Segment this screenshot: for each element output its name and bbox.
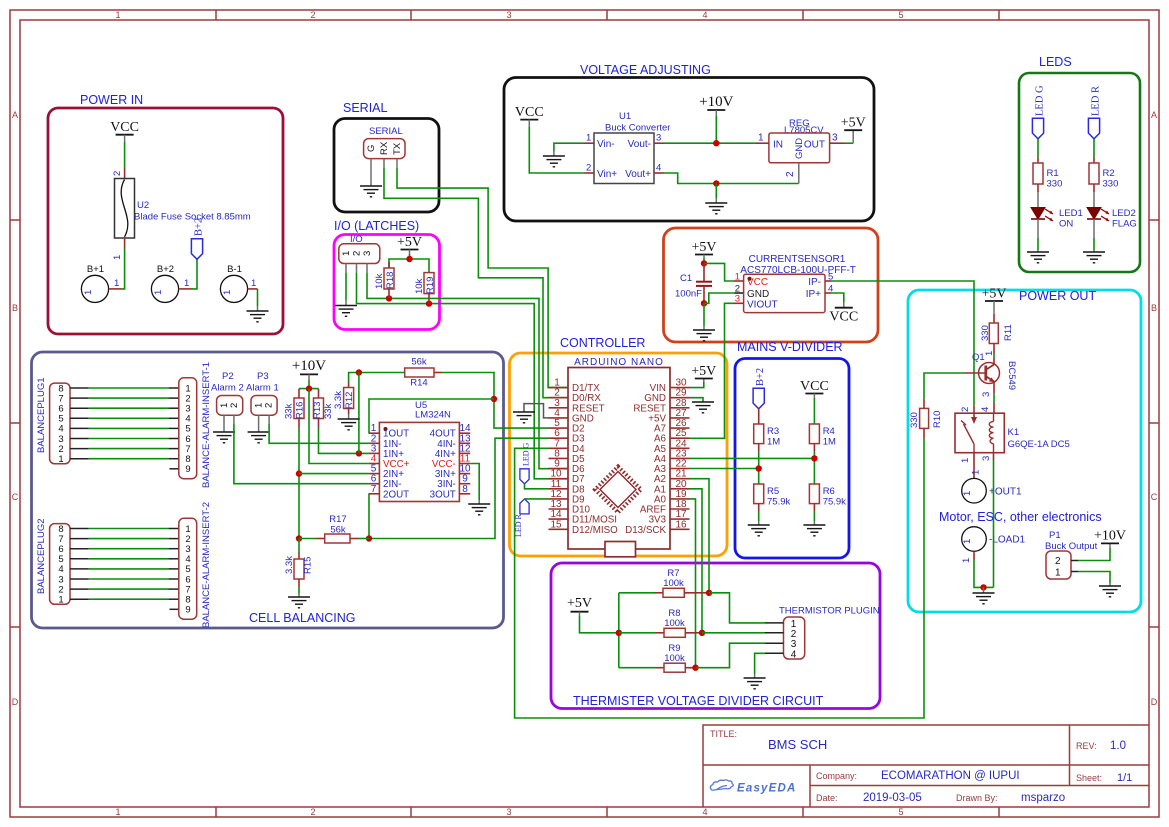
svg-text:OUT: OUT <box>804 140 825 151</box>
svg-text:1: 1 <box>58 595 63 606</box>
ground (power out) <box>973 587 995 603</box>
svg-text:VCC: VCC <box>110 120 139 135</box>
wire A0 to R9 node <box>690 499 696 668</box>
wire Q1 emitter to relay pin4 <box>980 382 994 414</box>
junction C1 bottom <box>701 300 707 306</box>
svg-text:Q1: Q1 <box>972 352 985 363</box>
svg-text:2: 2 <box>785 171 796 177</box>
power flag +10V (cell balancing) <box>292 358 326 389</box>
svg-text:SERIAL: SERIAL <box>343 101 388 115</box>
svg-text:GND: GND <box>794 138 805 159</box>
wires plug1 to insert1 <box>89 388 169 459</box>
wire R12/R14 node down to 1IN+ row <box>358 373 360 454</box>
svg-text:2: 2 <box>264 403 275 408</box>
power flag +5V (I/O) <box>397 235 422 254</box>
svg-text:Drawn By:: Drawn By: <box>956 793 998 803</box>
svg-text:15: 15 <box>550 519 562 530</box>
connector I/O <box>339 234 380 273</box>
resistor R12 3.3k <box>333 382 355 414</box>
THERMISTER box <box>551 563 880 709</box>
svg-text:Alarm 1: Alarm 1 <box>246 383 279 394</box>
connector B+2 <box>151 264 191 303</box>
svg-text:+5V: +5V <box>691 364 716 379</box>
svg-text:FLAG: FLAG <box>1112 219 1137 230</box>
svg-text:56k: 56k <box>411 357 427 368</box>
wire U5 VCC- to ground <box>470 464 479 501</box>
wire +5V to resistor rail <box>580 593 623 668</box>
svg-text:1: 1 <box>114 278 119 289</box>
ground (current sensor) <box>693 326 715 341</box>
svg-text:R15: R15 <box>303 557 314 574</box>
wire LOAD1 to gnd node <box>974 560 994 587</box>
svg-text:330: 330 <box>909 412 920 428</box>
svg-text:3: 3 <box>735 294 740 305</box>
svg-text:ARDUINO NANO: ARDUINO NANO <box>574 357 664 368</box>
svg-text:330: 330 <box>1103 179 1119 190</box>
connector P3 Alarm 1 <box>246 371 279 424</box>
svg-text:16: 16 <box>675 519 687 530</box>
SERIAL box <box>334 101 439 212</box>
svg-text:1: 1 <box>112 255 123 260</box>
svg-text:B: B <box>1151 303 1157 313</box>
svg-text:1M: 1M <box>823 437 836 448</box>
wire VCC to R4 <box>813 398 815 424</box>
junction R9 right <box>692 665 698 671</box>
ground (divider right) <box>803 525 825 536</box>
svg-text:LM324N: LM324N <box>415 410 451 421</box>
svg-text:75.9k: 75.9k <box>823 497 846 508</box>
junction gnd rail <box>713 180 719 186</box>
svg-text:msparzo: msparzo <box>1021 792 1065 804</box>
ground (led2) <box>1083 252 1105 263</box>
svg-text:B+1: B+1 <box>87 264 104 275</box>
LED2 <box>1087 192 1137 230</box>
svg-text:-LOAD1: -LOAD1 <box>989 535 1026 546</box>
wire base from R10 <box>924 373 965 399</box>
svg-text:VCC: VCC <box>800 379 829 394</box>
svg-text:ON: ON <box>1059 219 1073 230</box>
wire P2 pin1 to ground <box>223 424 225 432</box>
resistor R1 330 <box>1033 157 1062 192</box>
svg-text:1: 1 <box>735 272 740 283</box>
svg-text:1: 1 <box>251 278 256 289</box>
I/O (LATCHES) box <box>334 219 440 330</box>
IC ARDUINO NANO <box>549 357 690 557</box>
ground (U5) <box>468 500 490 515</box>
connector P1 Buck Output <box>1045 530 1098 579</box>
wire R6 to ground <box>813 511 815 525</box>
svg-text:1: 1 <box>960 458 971 463</box>
MAINS V-DIVIDER box <box>735 340 849 558</box>
svg-text:POWER IN: POWER IN <box>80 93 143 107</box>
svg-text:ECOMARATHON @ IUPUI: ECOMARATHON @ IUPUI <box>881 770 1020 782</box>
wire Vout- to REG IN <box>664 140 755 146</box>
svg-text:BMS SCH: BMS SCH <box>768 737 827 752</box>
svg-text:R19: R19 <box>425 277 436 294</box>
svg-text:D13/SCK: D13/SCK <box>625 525 666 536</box>
power flag VCC (power in) <box>110 120 139 142</box>
resistor R11 330 <box>980 314 1014 354</box>
wire sensor IP+ to VCC flag <box>831 293 844 302</box>
wire VCC to Vin+ <box>529 127 584 173</box>
svg-text:B+2: B+2 <box>194 218 205 236</box>
svg-text:100k: 100k <box>664 618 685 629</box>
svg-text:POWER OUT: POWER OUT <box>1019 289 1096 303</box>
svg-text:P1: P1 <box>1049 530 1061 541</box>
resistor R9 100k <box>619 643 696 672</box>
wire 1OUT elbow to rail <box>369 399 494 433</box>
wire P1 pin1 to ground <box>1078 572 1110 584</box>
wire A1 to R8 node <box>690 489 703 633</box>
wire P2 pin2 to U5 2IN- <box>234 424 369 484</box>
VOLTAGE ADJUSTING box <box>504 63 874 221</box>
wire I/O pin2 to R19 node to D7 <box>357 273 569 479</box>
ground (thermistor) <box>744 674 766 689</box>
svg-text:CURRENTSENSOR1: CURRENTSENSOR1 <box>749 254 846 265</box>
svg-text:BALANCE-ALARM-INSERT-2: BALANCE-ALARM-INSERT-2 <box>201 502 212 628</box>
resistor R15 3.3k <box>284 539 314 588</box>
svg-text:CELL BALANCING: CELL BALANCING <box>249 611 356 625</box>
svg-text:2: 2 <box>352 251 363 256</box>
resistor R17 56k <box>299 514 369 543</box>
svg-text:7: 7 <box>371 484 377 495</box>
wire gnd trace to pin4 GND <box>524 404 549 418</box>
junction R7 right <box>706 590 712 596</box>
net flag B+2 (divider) <box>753 368 766 409</box>
label U2 Blade Fuse Socket 8.85mm <box>134 200 251 223</box>
svg-text:1: 1 <box>222 290 233 295</box>
wire R17 node to D3 <box>366 438 549 542</box>
svg-text:VCC: VCC <box>515 105 544 120</box>
wire sensor IP- to relay pin2 <box>831 281 974 405</box>
svg-text:VCC: VCC <box>747 277 768 288</box>
wire sensor GND pin2 to C1 node <box>704 293 744 303</box>
svg-text:VCC: VCC <box>829 310 858 325</box>
power flag +10V (power out) <box>1094 529 1126 549</box>
power flag VCC (divider) <box>800 379 829 398</box>
svg-text:K1: K1 <box>1008 427 1020 438</box>
net flag LED R (leds box) <box>1088 86 1101 139</box>
IC CURRENTSENSOR1 ACS770LCB-100U-PFF-T <box>734 254 856 313</box>
svg-text:G6QE-1A DC5: G6QE-1A DC5 <box>1008 439 1070 450</box>
svg-text:D12/MISO: D12/MISO <box>572 525 618 536</box>
power flag +5V (controller VIN) <box>690 364 717 388</box>
svg-text:1: 1 <box>83 290 94 295</box>
svg-text:3: 3 <box>832 133 838 144</box>
resistor R16 33k <box>284 389 306 429</box>
net flag LED G (leds box) <box>1032 85 1045 139</box>
svg-text:330: 330 <box>980 325 991 341</box>
svg-text:R14: R14 <box>410 378 427 389</box>
ground (I/O) <box>335 300 357 316</box>
wire R7 node to plugin pin1 <box>709 593 765 623</box>
wire Vout+ to gnd rail <box>664 173 799 184</box>
svg-text:LED G: LED G <box>1035 85 1046 116</box>
svg-text:RX: RX <box>379 141 390 155</box>
svg-text:R10: R10 <box>932 411 943 428</box>
svg-text:VCC-: VCC- <box>432 459 456 470</box>
svg-text:A: A <box>1151 110 1157 120</box>
svg-text:330: 330 <box>1047 179 1063 190</box>
ground (R15) <box>288 587 310 608</box>
svg-text:Vout+: Vout+ <box>625 169 651 180</box>
svg-text:3OUT: 3OUT <box>430 489 456 500</box>
svg-text:R16: R16 <box>295 402 306 419</box>
capacitor C1 100nF <box>675 263 712 303</box>
relay pin1 to +OUT1 <box>960 453 982 479</box>
svg-text:I/O (LATCHES): I/O (LATCHES) <box>334 219 419 233</box>
svg-text:Vin+: Vin+ <box>597 169 617 180</box>
svg-text:1: 1 <box>115 10 120 20</box>
svg-text:C: C <box>12 492 19 502</box>
wire R11 to Q1 collector <box>993 354 995 365</box>
wire D4 to relay base resistor R10 <box>515 439 924 718</box>
svg-text:+5V: +5V <box>397 235 422 250</box>
svg-text:R4: R4 <box>823 426 835 437</box>
junction gnd node <box>980 584 986 590</box>
svg-text:A: A <box>12 110 18 120</box>
svg-text:EasyEDA: EasyEDA <box>737 783 797 795</box>
wire A2 to R7 node <box>690 479 710 593</box>
svg-text:2: 2 <box>310 10 315 20</box>
svg-text:33k: 33k <box>284 403 295 419</box>
fuse U2 pin 1 <box>112 238 125 260</box>
svg-text:1: 1 <box>758 133 764 144</box>
resistor R3 1M <box>754 409 781 452</box>
wire LED1 to ground <box>1037 219 1039 252</box>
svg-text:5: 5 <box>898 10 903 20</box>
resistor R18 10k <box>374 262 396 298</box>
transistor Q1 BC549 <box>965 351 1018 397</box>
resistor R5 75.9k <box>754 484 791 511</box>
wire LED G flag to D8 <box>525 484 549 489</box>
wire R8 node to plugin pin2 <box>702 632 765 634</box>
svg-text:LED1: LED1 <box>1059 208 1083 219</box>
resistor R13 33k <box>312 389 334 429</box>
wire plugin pin4 to ground <box>755 653 765 674</box>
wire R12 bottom to ground <box>348 414 350 419</box>
svg-text:3.3k: 3.3k <box>284 556 295 574</box>
power flag VCC (voltage adjusting) <box>515 105 544 127</box>
svg-text:75.9k: 75.9k <box>767 497 790 508</box>
svg-text:Vin-: Vin- <box>597 139 615 150</box>
svg-text:+5V: +5V <box>567 596 592 611</box>
LED1 <box>1031 192 1083 230</box>
svg-text:1: 1 <box>115 807 120 817</box>
resistor R4 1M <box>809 424 836 452</box>
svg-text:D: D <box>1151 697 1158 707</box>
connector THERMISTOR PLUGIN <box>765 606 880 661</box>
resistor R14 56k <box>405 357 442 389</box>
svg-text:2: 2 <box>112 171 123 176</box>
svg-text:10k: 10k <box>374 273 385 289</box>
ground (divider left) <box>748 525 770 536</box>
net flag LED G (controller) <box>520 442 531 483</box>
resistor R10 330 <box>909 399 943 439</box>
svg-text:VOLTAGE ADJUSTING: VOLTAGE ADJUSTING <box>580 63 711 77</box>
connector -LOAD1 <box>961 527 1026 563</box>
svg-text:1: 1 <box>961 558 972 563</box>
svg-text:3: 3 <box>981 392 992 397</box>
svg-text:THERMISTOR PLUGIN: THERMISTOR PLUGIN <box>779 606 880 617</box>
svg-text:U1: U1 <box>619 111 631 122</box>
svg-text:VIOUT: VIOUT <box>747 300 778 311</box>
CURRENTSENSOR box <box>664 228 879 342</box>
svg-text:R6: R6 <box>823 486 835 497</box>
svg-text:Blade Fuse Socket 8.85mm: Blade Fuse Socket 8.85mm <box>134 212 251 223</box>
wire controller GND pin29 to ground <box>690 398 704 402</box>
wire serial TX to D1/TX <box>397 168 568 388</box>
svg-text:100nF: 100nF <box>675 289 702 300</box>
power flag +5V (current sensor) <box>691 240 716 258</box>
svg-text:4: 4 <box>791 649 797 660</box>
svg-text:BALANCE-ALARM-INSERT-1: BALANCE-ALARM-INSERT-1 <box>201 362 212 488</box>
wire rail to ground <box>715 184 717 199</box>
wire R3 to R5 node <box>756 452 762 484</box>
svg-text:3: 3 <box>656 133 661 144</box>
svg-text:R11: R11 <box>1003 324 1014 341</box>
resistor R2 330 <box>1089 157 1118 192</box>
svg-text:IP+: IP+ <box>806 289 821 300</box>
svg-text:3: 3 <box>362 251 373 256</box>
svg-text:2: 2 <box>791 629 797 640</box>
svg-text:+5V: +5V <box>841 116 866 131</box>
wire B+2 to flag <box>192 259 198 289</box>
svg-text:+10V: +10V <box>292 358 326 374</box>
connector B-1 <box>220 264 257 303</box>
svg-text:TITLE:: TITLE: <box>710 729 737 739</box>
CONTROLLER box <box>510 336 728 556</box>
wire C1 bottom to ground <box>703 303 705 326</box>
wire I/O pin3 to R18 node to D6 <box>367 273 568 469</box>
wire relay pin3 down <box>981 453 994 588</box>
svg-text:1M: 1M <box>767 437 780 448</box>
svg-text:REV:: REV: <box>1076 741 1097 751</box>
wire R16 bottom to 2IN+ node to R17/R15 <box>296 429 369 542</box>
svg-text:B-1: B-1 <box>227 264 242 275</box>
svg-text:P2: P2 <box>222 371 234 382</box>
wire LED R flag to D9 <box>525 498 549 500</box>
ground (led1) <box>1027 252 1049 263</box>
wire +10V node to R16 R13 tops <box>299 385 319 391</box>
fuse U2 <box>115 179 135 239</box>
svg-text:3.3k: 3.3k <box>333 391 344 409</box>
wire R9 node to plugin pin3 <box>696 643 766 668</box>
svg-text:1: 1 <box>58 454 63 465</box>
svg-text:Company:: Company: <box>816 771 857 781</box>
wire B-1 to ground <box>257 289 259 306</box>
svg-text:R18: R18 <box>385 272 396 289</box>
svg-text:4: 4 <box>980 407 991 412</box>
op-amp U5 LM324N <box>369 400 471 502</box>
ground (controller right) <box>692 402 714 413</box>
svg-text:10k: 10k <box>414 278 425 294</box>
svg-text:C: C <box>1151 492 1158 502</box>
wire flag to R1 <box>1037 139 1039 157</box>
svg-text:B+2: B+2 <box>755 368 766 386</box>
ground (power in) <box>247 306 269 322</box>
svg-text:2: 2 <box>310 807 315 817</box>
connector P2 Alarm 2 <box>211 371 244 424</box>
relay K1 G6QE-1A DC5 <box>955 413 1070 453</box>
wire sensor VIOUT to controller A6 <box>690 303 735 438</box>
svg-text:VCC+: VCC+ <box>383 459 410 470</box>
net flag LED R (controller) <box>514 499 529 537</box>
svg-text:Date:: Date: <box>816 793 838 803</box>
ground (buck output) <box>1099 583 1121 597</box>
svg-text:TX: TX <box>392 142 403 155</box>
wire P3 pin2 to U5 1IN- <box>269 424 369 443</box>
svg-text:R2: R2 <box>1103 168 1115 179</box>
svg-text:3: 3 <box>506 807 511 817</box>
wire +5V node <box>701 258 707 267</box>
svg-text:D: D <box>12 697 19 707</box>
wires plug2 to insert2 <box>89 529 169 600</box>
connector BALANCEPLUG1 <box>36 377 89 465</box>
wire P3 pin1 to ground <box>258 424 260 432</box>
connector BALANCE-ALARM-INSERT-2 <box>169 502 212 628</box>
svg-text:R12: R12 <box>344 392 355 409</box>
svg-text:2: 2 <box>1055 556 1061 567</box>
wire Vin- to ground <box>554 143 584 151</box>
svg-text:4: 4 <box>656 163 661 174</box>
svg-text:3: 3 <box>506 10 511 20</box>
svg-text:1: 1 <box>586 133 591 144</box>
svg-text:Vout-: Vout- <box>628 139 651 150</box>
wire serial RX to D0/RX <box>384 168 568 398</box>
regulator REG L7805CV <box>755 118 845 184</box>
resistor R19 10k <box>414 273 436 304</box>
svg-text:9: 9 <box>185 464 190 475</box>
svg-text:BALANCEPLUG1: BALANCEPLUG1 <box>36 377 47 453</box>
svg-text:Alarm 2: Alarm 2 <box>211 383 244 394</box>
svg-text:2019-03-05: 2019-03-05 <box>863 792 922 804</box>
svg-text:8: 8 <box>462 484 468 495</box>
svg-text:100k: 100k <box>664 653 685 664</box>
ground (voltage adjusting left) <box>543 151 565 167</box>
resistor R6 75.9k <box>809 484 846 511</box>
svg-text:LED2: LED2 <box>1112 208 1136 219</box>
ground (controller left) <box>513 412 535 423</box>
wire R13 bottom to 1IN+ <box>319 429 369 457</box>
wire +5V to R18 R19 tops <box>389 254 429 273</box>
connector +OUT1 <box>962 478 1022 503</box>
svg-text:THERMISTER VOLTAGE DIVIDER CIR: THERMISTER VOLTAGE DIVIDER CIRCUIT <box>573 694 824 708</box>
wire LED2 to ground <box>1093 219 1095 252</box>
resistor R7 100k <box>619 568 709 597</box>
LEDS box <box>1019 55 1140 272</box>
wire R12 top to R14 node <box>349 369 405 382</box>
ground (serial) <box>360 186 382 197</box>
svg-text:2: 2 <box>586 163 591 174</box>
svg-text:P3: P3 <box>257 371 269 382</box>
svg-text:100k: 100k <box>663 578 684 589</box>
wire R4 to R6 node <box>811 452 817 484</box>
power flag VCC (down, sensor IP+) <box>829 302 858 325</box>
svg-text:R17: R17 <box>329 514 346 525</box>
svg-text:IP-: IP- <box>808 277 821 288</box>
wire 2OUT to R17 node <box>368 494 370 539</box>
svg-text:LEDS: LEDS <box>1039 55 1072 69</box>
ground (R12) <box>338 419 360 430</box>
resistor R8 100k <box>619 608 702 637</box>
fuse U2 pin 2 <box>112 168 125 179</box>
buck converter U1 <box>584 111 670 184</box>
svg-text:+10V: +10V <box>699 94 733 110</box>
wire fuse to B+1 <box>122 249 125 289</box>
svg-text:1: 1 <box>341 251 352 256</box>
svg-text:4: 4 <box>702 807 707 817</box>
